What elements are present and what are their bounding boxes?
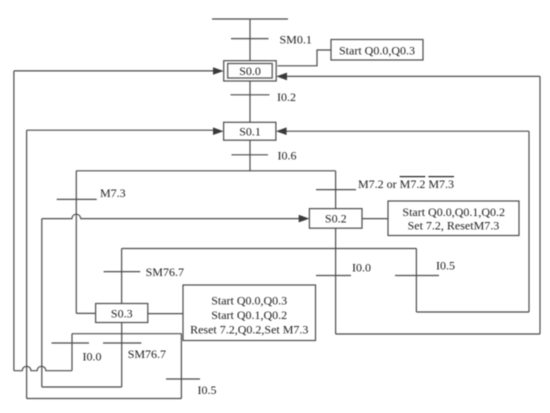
- svg-text:M7.2 or M7.2 M7.3: M7.2 or M7.2 M7.3: [358, 177, 454, 191]
- svg-text:I0.5: I0.5: [436, 259, 455, 273]
- svg-text:SM0.1: SM0.1: [280, 33, 312, 47]
- svg-text:I0.0: I0.0: [352, 261, 371, 275]
- svg-text:S0.0: S0.0: [239, 64, 261, 78]
- svg-text:Start Q0.0,Q0.3: Start Q0.0,Q0.3: [211, 293, 287, 307]
- svg-text:Start Q0.0,Q0.1,Q0.2: Start Q0.0,Q0.1,Q0.2: [402, 205, 505, 219]
- svg-text:I0.0: I0.0: [83, 350, 102, 364]
- svg-text:M7.3: M7.3: [100, 186, 126, 200]
- svg-text:SM76.7: SM76.7: [128, 347, 166, 361]
- svg-text:Start Q0.1,Q0.2: Start Q0.1,Q0.2: [211, 308, 287, 322]
- svg-text:Reset 7.2,Q0.2,Set M7.3: Reset 7.2,Q0.2,Set M7.3: [190, 322, 308, 336]
- svg-text:Start Q0.0,Q0.3: Start Q0.0,Q0.3: [339, 44, 415, 58]
- svg-text:S0.2: S0.2: [325, 212, 347, 226]
- svg-text:S0.3: S0.3: [111, 307, 133, 321]
- svg-text:I0.6: I0.6: [278, 149, 297, 163]
- svg-text:SM76.7: SM76.7: [146, 265, 184, 279]
- svg-text:Set 7.2, ResetM7.3: Set 7.2, ResetM7.3: [408, 219, 500, 233]
- svg-text:I0.5: I0.5: [198, 383, 217, 397]
- svg-text:I0.2: I0.2: [277, 90, 296, 104]
- svg-text:S0.1: S0.1: [239, 125, 261, 139]
